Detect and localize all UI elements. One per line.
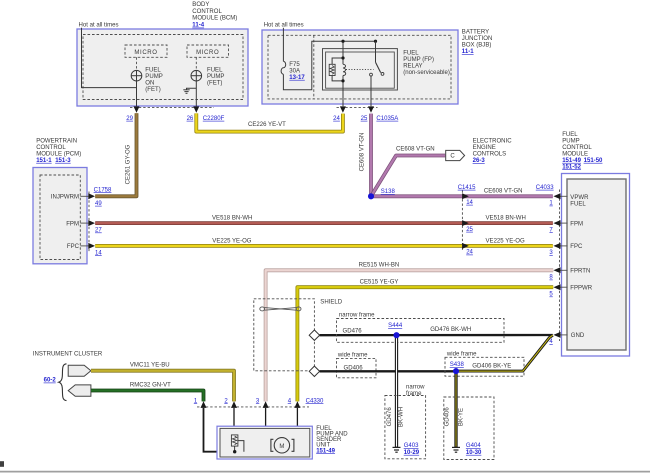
svg-text:14: 14 [95, 250, 102, 256]
svg-text:26-3: 26-3 [473, 158, 486, 164]
svg-text:JUNCTION: JUNCTION [462, 36, 493, 42]
svg-text:10-30: 10-30 [466, 450, 482, 456]
svg-text:FPM: FPM [570, 221, 583, 227]
svg-text:G404: G404 [466, 443, 481, 449]
svg-text:RMC32 GN-VT: RMC32 GN-VT [130, 383, 171, 389]
svg-text:24: 24 [333, 116, 340, 122]
svg-text:F75: F75 [289, 62, 300, 68]
svg-text:C1415: C1415 [458, 185, 476, 191]
svg-text:PUMP: PUMP [207, 74, 224, 80]
svg-text:RELAY: RELAY [403, 64, 422, 70]
svg-text:151-1: 151-1 [36, 158, 52, 164]
svg-text:SHIELD: SHIELD [320, 300, 342, 306]
svg-text:30A: 30A [289, 68, 301, 74]
svg-text:GND: GND [571, 333, 585, 339]
svg-text:GD406: GD406 [445, 407, 451, 427]
svg-text:FPC: FPC [67, 244, 80, 250]
svg-text:C: C [450, 154, 455, 160]
svg-text:VE225 YE-OG: VE225 YE-OG [486, 238, 526, 244]
svg-text:S138: S138 [381, 189, 396, 195]
svg-text:VMC11 YE-BU: VMC11 YE-BU [130, 363, 170, 369]
svg-text:ON: ON [145, 81, 154, 87]
svg-text:29: 29 [126, 116, 133, 122]
svg-text:BK-YE: BK-YE [458, 408, 464, 426]
svg-text:MODULE (PCM): MODULE (PCM) [36, 151, 81, 157]
svg-text:Hot at all times: Hot at all times [264, 22, 304, 28]
svg-text:POWERTRAIN: POWERTRAIN [36, 138, 77, 144]
svg-text:wide frame: wide frame [446, 351, 477, 357]
svg-text:PUMP (FP): PUMP (FP) [403, 57, 434, 63]
svg-text:BATTERY: BATTERY [462, 30, 489, 36]
svg-text:narrow: narrow [406, 384, 425, 390]
svg-text:ELECTRONIC: ELECTRONIC [473, 139, 513, 145]
svg-text:BODY: BODY [192, 2, 209, 8]
svg-text:FUEL: FUEL [145, 68, 161, 74]
svg-text:S444: S444 [388, 323, 403, 329]
svg-text:wide frame: wide frame [337, 353, 368, 359]
svg-text:MICRO: MICRO [196, 50, 219, 56]
svg-text:ENGINE: ENGINE [473, 145, 496, 151]
svg-text:151-52: 151-52 [562, 164, 581, 170]
svg-text:11-4: 11-4 [192, 23, 204, 29]
svg-text:CE608 VT-GN: CE608 VT-GN [484, 188, 523, 194]
svg-text:CONTROLS: CONTROLS [473, 152, 507, 158]
svg-text:FPRTN: FPRTN [570, 269, 590, 275]
svg-text:60-2: 60-2 [44, 378, 57, 384]
svg-text:(non-serviceable): (non-serviceable) [403, 70, 450, 76]
svg-text:G403: G403 [404, 443, 419, 449]
svg-text:25: 25 [466, 227, 473, 233]
svg-text:frame: frame [406, 391, 422, 397]
svg-text:27: 27 [95, 228, 102, 234]
svg-text:CONTROL: CONTROL [36, 145, 66, 151]
svg-text:C4033: C4033 [536, 185, 554, 191]
svg-text:CONTROL: CONTROL [192, 9, 222, 15]
svg-text:10-29: 10-29 [404, 450, 420, 456]
svg-text:GD476 BK-WH: GD476 BK-WH [430, 327, 471, 333]
svg-text:VE518 BN-WH: VE518 BN-WH [486, 215, 526, 221]
svg-text:PUMP: PUMP [145, 74, 162, 80]
svg-text:BK-WH: BK-WH [399, 407, 405, 427]
svg-text:C2280F: C2280F [203, 116, 225, 122]
svg-text:CE261 GY-OG: CE261 GY-OG [126, 144, 132, 184]
svg-text:(FET): (FET) [207, 81, 222, 87]
svg-text:VE518 BN-WH: VE518 BN-WH [212, 215, 252, 221]
svg-text:C1758: C1758 [94, 187, 112, 193]
svg-text:C4330: C4330 [306, 398, 324, 404]
svg-text:24: 24 [466, 250, 473, 256]
svg-text:BOX (BJB): BOX (BJB) [462, 43, 492, 49]
svg-text:GD476: GD476 [387, 407, 393, 427]
svg-text:MODULE: MODULE [562, 151, 588, 157]
svg-text:11-1: 11-1 [462, 49, 474, 55]
svg-text:MODULE (BCM): MODULE (BCM) [192, 16, 237, 22]
svg-text:CE515 YE-GY: CE515 YE-GY [360, 280, 399, 286]
svg-text:FPM: FPM [66, 221, 79, 227]
svg-text:CE608 VT-GN: CE608 VT-GN [396, 146, 435, 152]
svg-text:PUMP: PUMP [562, 138, 579, 144]
svg-text:INSTRUMENT CLUSTER: INSTRUMENT CLUSTER [33, 351, 103, 357]
svg-text:MICRO: MICRO [134, 50, 157, 56]
svg-text:INJPWRM: INJPWRM [51, 195, 79, 201]
svg-text:GD406 BK-YE: GD406 BK-YE [472, 363, 511, 369]
svg-text:151-49: 151-49 [562, 158, 581, 164]
svg-text:FUEL: FUEL [570, 201, 586, 207]
svg-text:Hot at all times: Hot at all times [79, 22, 119, 28]
svg-text:S438: S438 [450, 362, 465, 368]
svg-text:49: 49 [95, 201, 102, 207]
svg-text:25: 25 [361, 116, 368, 122]
svg-text:151-49: 151-49 [316, 448, 335, 454]
svg-text:14: 14 [466, 200, 473, 206]
svg-text:FPPWR: FPPWR [570, 286, 592, 292]
svg-text:151-3: 151-3 [55, 158, 71, 164]
svg-text:13-17: 13-17 [289, 75, 305, 81]
svg-text:UNIT: UNIT [316, 442, 330, 448]
svg-text:M: M [279, 444, 284, 450]
svg-text:narrow frame: narrow frame [339, 312, 375, 318]
svg-text:CONTROL: CONTROL [562, 145, 592, 151]
svg-text:FUEL: FUEL [562, 132, 578, 138]
svg-text:26: 26 [187, 116, 194, 122]
svg-text:VE225 YE-OG: VE225 YE-OG [212, 238, 252, 244]
svg-text:FUEL: FUEL [403, 51, 419, 57]
svg-text:VPWR: VPWR [570, 195, 589, 201]
svg-text:GD476: GD476 [343, 328, 363, 334]
svg-text:C1035A: C1035A [376, 116, 399, 122]
svg-text:(FET): (FET) [145, 87, 160, 93]
svg-text:151-50: 151-50 [584, 158, 603, 164]
svg-text:RE515 WH-BN: RE515 WH-BN [359, 263, 400, 269]
svg-text:CE226 YE-VT: CE226 YE-VT [248, 122, 286, 128]
svg-text:FUEL: FUEL [207, 68, 223, 74]
svg-text:FPC: FPC [570, 244, 583, 250]
svg-text:CE608 VT-GN: CE608 VT-GN [360, 133, 366, 172]
